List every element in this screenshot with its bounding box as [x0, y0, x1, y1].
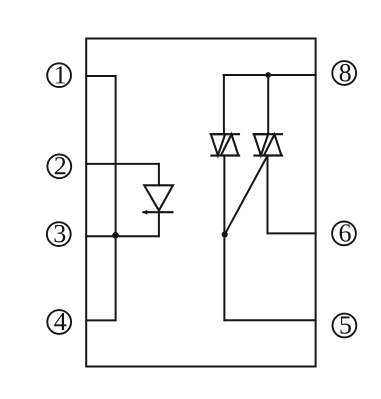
triac Q2 top bar — [254, 133, 282, 135]
pin 8 label — [340, 64, 351, 82]
junction dot node pin8 wire — [265, 72, 271, 78]
LED D1 cathode bar — [143, 211, 172, 213]
triac Q1 right triangle — [221, 134, 239, 155]
pin 5 label — [340, 317, 351, 334]
wire vertical pin1-pin3-pin4 bus — [115, 76, 117, 320]
pin 6 label — [340, 224, 351, 242]
wire pin3 horizontal — [86, 235, 159, 237]
LED D1 triangle — [144, 185, 173, 210]
junction dot node pin3 bus — [112, 232, 119, 239]
wire triac2 bottom stem — [267, 156, 269, 234]
wire triac1 top stem — [223, 75, 225, 134]
pin 5 circle — [333, 314, 357, 338]
wire LED anode stem — [158, 164, 160, 185]
triac Q1 bottom bar — [211, 155, 239, 157]
pin 8 circle — [332, 61, 356, 85]
triac Q2 left triangle — [254, 134, 268, 155]
wire triac1 bottom to pin5 — [223, 156, 225, 321]
triac Q2 bottom bar — [254, 155, 282, 157]
LED cathode bar arrow tip — [143, 210, 147, 214]
wire pin2 horizontal — [86, 163, 159, 165]
pin 6 circle — [332, 222, 356, 246]
pin 1 label — [56, 66, 65, 83]
wire gate diagonal — [225, 158, 267, 235]
wire triac2 top stem — [267, 75, 269, 134]
wire pin5 horizontal — [224, 319, 315, 321]
wire pin1 horizontal — [86, 75, 115, 77]
package outline — [86, 39, 315, 367]
wire pin8 horizontal — [224, 74, 316, 76]
junction dot node gate/pin5 bus — [222, 231, 228, 237]
pin 2 circle — [47, 154, 71, 178]
pin 2 label — [55, 157, 66, 174]
pin 1 circle — [47, 63, 71, 87]
wire LED cathode stem — [158, 212, 160, 236]
wire pin6 horizontal — [268, 232, 316, 234]
triac Q1 left triangle — [211, 134, 225, 155]
pin 3 label — [55, 225, 66, 243]
triac Q2 right triangle — [264, 134, 282, 155]
pin 4 circle — [47, 310, 71, 334]
pin 4 label — [54, 313, 66, 330]
pin 3 circle — [47, 222, 71, 246]
triac Q1 top bar — [211, 133, 239, 135]
wire pin4 horizontal — [86, 319, 115, 321]
